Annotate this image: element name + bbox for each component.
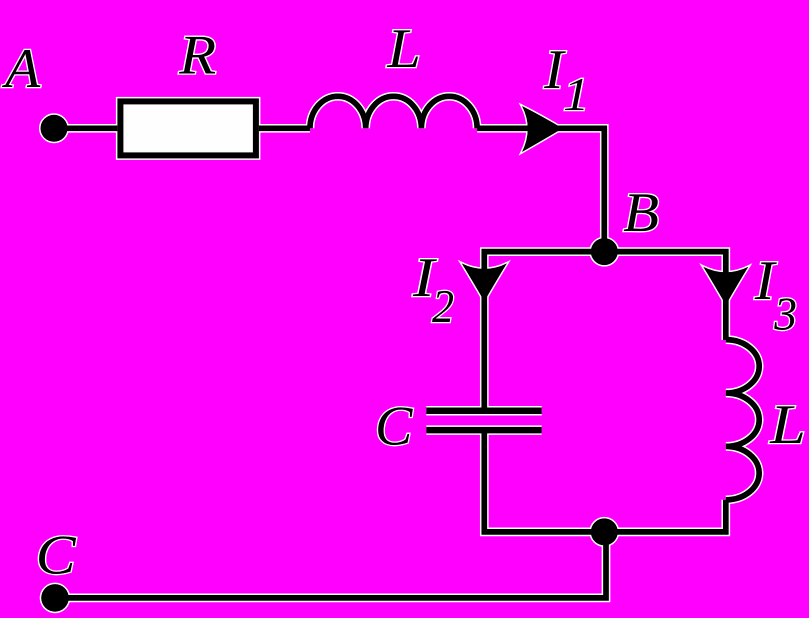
svg-text:C: C <box>36 525 77 587</box>
svg-text:2: 2 <box>432 281 454 333</box>
svg-text:C: C <box>375 396 413 458</box>
svg-text:L: L <box>386 18 421 80</box>
svg-text:R: R <box>178 25 216 87</box>
svg-text:3: 3 <box>773 289 797 341</box>
svg-text:1: 1 <box>563 69 589 121</box>
svg-text:B: B <box>623 182 659 244</box>
svg-text:A: A <box>1 38 41 100</box>
svg-text:L: L <box>769 394 806 456</box>
